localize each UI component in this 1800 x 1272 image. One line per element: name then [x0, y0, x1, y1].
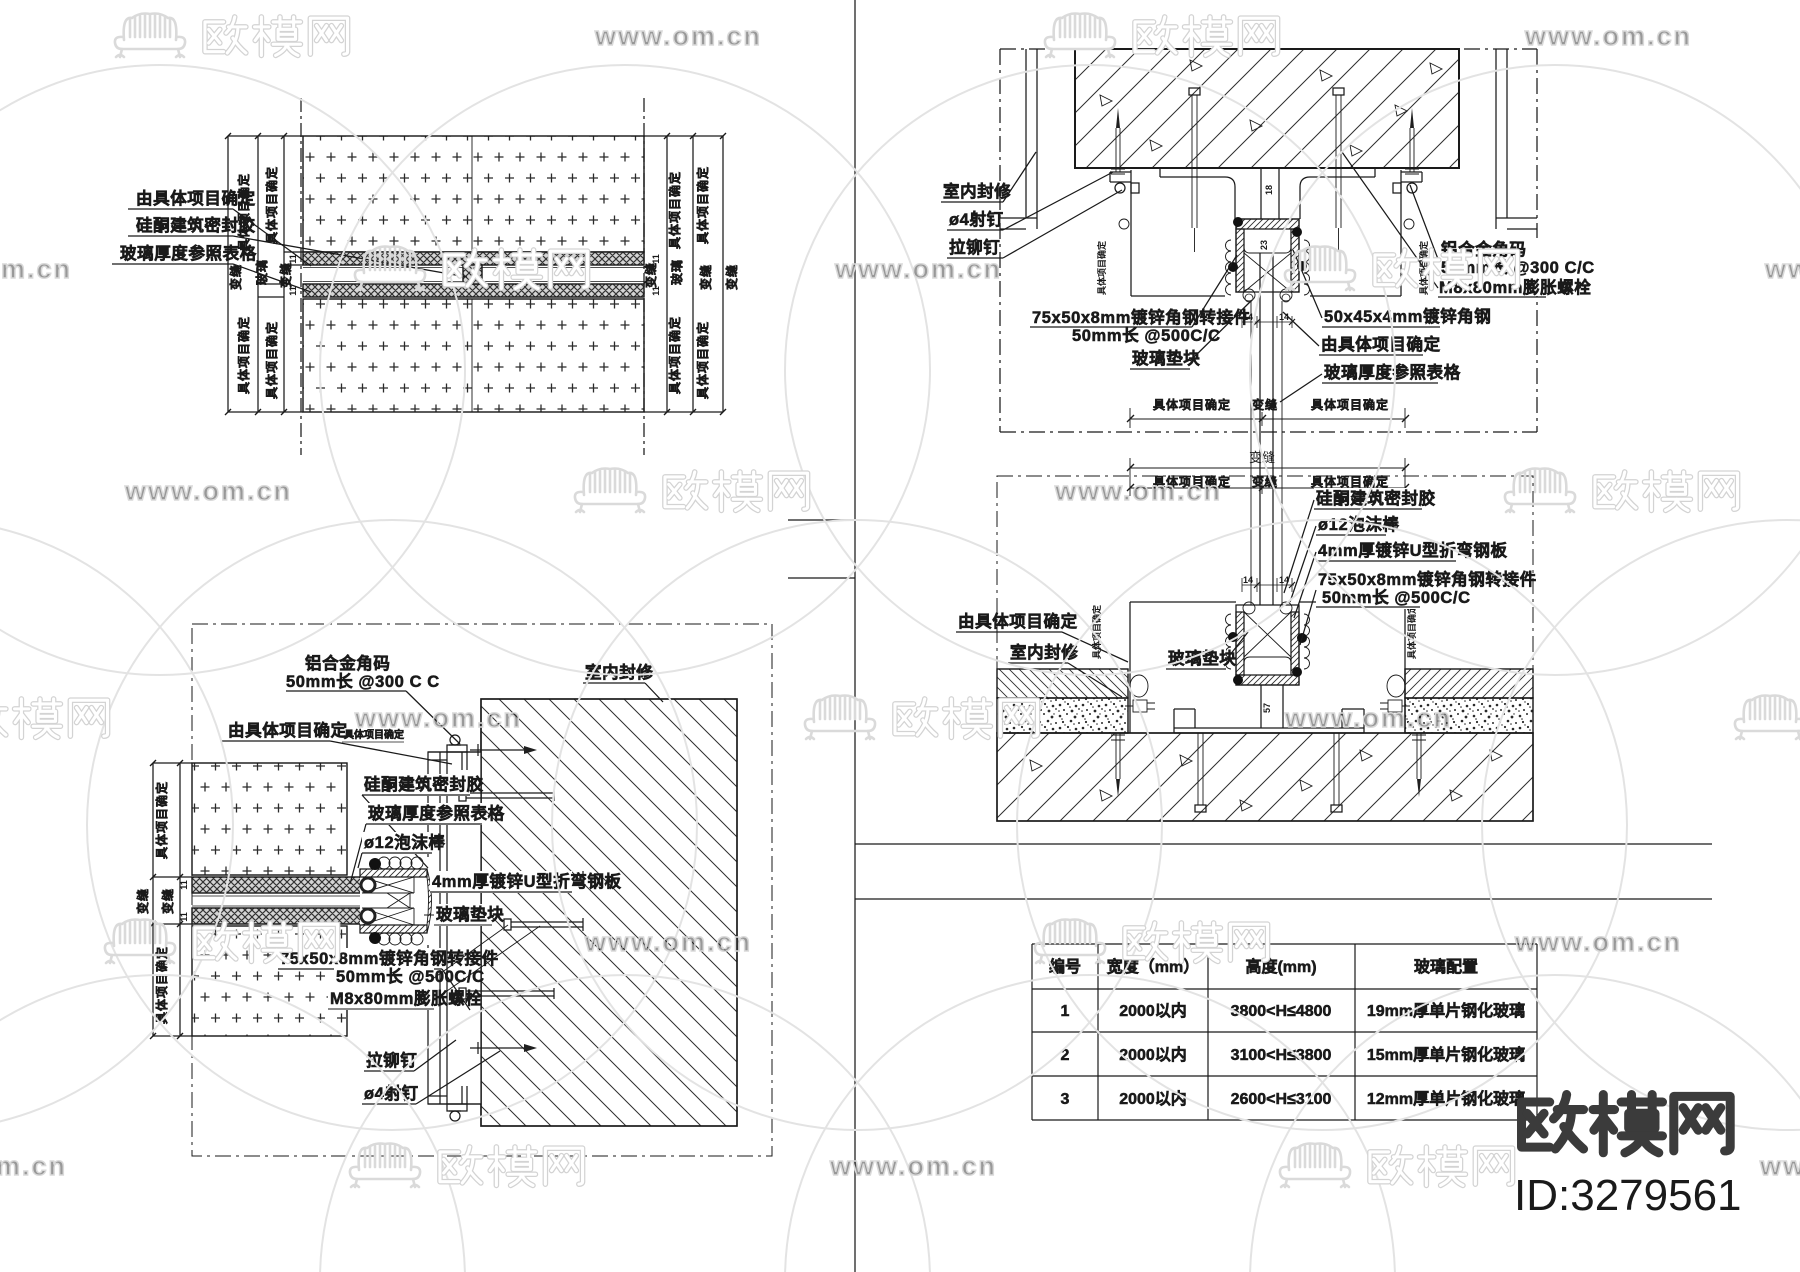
dimension columns right [644, 133, 726, 415]
svg-text:www.om.cn: www.om.cn [0, 254, 72, 284]
table header [1049, 957, 1478, 976]
setting block coils [1243, 602, 1255, 614]
top connection bracket [428, 735, 481, 770]
svg-text:www.om.cn: www.om.cn [1764, 254, 1800, 284]
cavity [1244, 229, 1291, 253]
hex bolt right [1380, 700, 1410, 712]
embed bolt right (down) [1331, 733, 1342, 812]
svg-text:编号: 编号 [1049, 957, 1081, 976]
expansion bolt left [1189, 88, 1200, 252]
sealant joint block [463, 265, 482, 284]
shot nail top [470, 744, 537, 756]
svg-text:2: 2 [1061, 1047, 1070, 1064]
svg-text:14: 14 [1243, 575, 1253, 585]
shoe right wall [1291, 229, 1299, 292]
label 室内封修 [583, 662, 663, 702]
svg-text:50mm长 @300 C C: 50mm长 @300 C C [286, 671, 440, 691]
label 玻璃厚度参照表格 [350, 803, 505, 884]
svg-text:具体项目确定: 具体项目确定 [695, 321, 710, 399]
rotated dim texts right [643, 166, 739, 399]
svg-text:www.om.cn: www.om.cn [1284, 703, 1452, 733]
glazing shoe lower [1226, 602, 1310, 685]
svg-text:具体项目确定: 具体项目确定 [695, 166, 710, 244]
label 拉铆钉 [364, 1040, 456, 1071]
svg-text:具体项目确定: 具体项目确定 [1406, 604, 1417, 660]
sealant bead right [1387, 675, 1405, 697]
svg-text:4mm厚镀锌U型折弯钢板: 4mm厚镀锌U型折弯钢板 [432, 871, 622, 891]
label 50x45x4mm镀锌角钢 [1293, 250, 1491, 328]
svg-text:拉铆钉: 拉铆钉 [366, 1050, 417, 1070]
svg-text:硅酮建筑密封胶: 硅酮建筑密封胶 [136, 215, 256, 235]
label 铝合金角码 [286, 653, 460, 744]
svg-text:www.om.cn: www.om.cn [594, 21, 762, 51]
svg-text:室内封修: 室内封修 [1010, 642, 1078, 662]
label 硅酮建筑密封胶 [362, 774, 484, 868]
dim line A [1127, 397, 1409, 428]
wing left [1130, 602, 1236, 733]
svg-text:12mm厚单片钢化玻璃: 12mm厚单片钢化玻璃 [1367, 1089, 1525, 1108]
svg-text:变缝: 变缝 [228, 264, 243, 290]
inner pane surface lines B [192, 896, 360, 906]
svg-text:11: 11 [179, 880, 189, 890]
svg-text:4mm厚镀锌U型折弯钢板: 4mm厚镀锌U型折弯钢板 [1318, 540, 1508, 560]
svg-text:www.om.cn: www.om.cn [1524, 21, 1692, 51]
svg-text:变缝: 变缝 [160, 888, 175, 914]
svg-text:www.om.cn: www.om.cn [0, 1151, 67, 1181]
svg-text:具体项目确定: 具体项目确定 [154, 781, 169, 859]
svg-text:11: 11 [651, 254, 661, 264]
stem size label [1262, 703, 1272, 713]
svg-text:宽度（mm）: 宽度（mm） [1107, 957, 1199, 976]
wing right [1299, 602, 1405, 733]
svg-text:具体项目确定: 具体项目确定 [1311, 474, 1389, 489]
svg-text:3100<H≤3800: 3100<H≤3800 [1231, 1047, 1332, 1064]
svg-text:具体项目确定: 具体项目确定 [1311, 397, 1389, 412]
glass pane outer [303, 252, 644, 265]
label 硅酮建筑密封胶 [128, 215, 467, 277]
foam rod coils bottom [378, 933, 423, 945]
dimension column far left [150, 760, 192, 1039]
floor left [997, 669, 1128, 733]
row 1 [1061, 1001, 1526, 1020]
shoe left wall [1236, 612, 1244, 675]
detail boundary top [1000, 48, 1537, 50]
channel top leg [360, 869, 427, 877]
foam rod coils top [378, 857, 423, 869]
label 75x50x8mm镀锌角钢转接件 50mm长 [1300, 569, 1537, 645]
svg-text:www.om.cn: www.om.cn [834, 254, 1002, 284]
svg-text:具体项目确定: 具体项目确定 [264, 321, 279, 399]
svg-text:具体项目确定: 具体项目确定 [154, 946, 169, 1024]
14 ticks upper [1242, 312, 1295, 328]
label 室内封修 [941, 152, 1036, 202]
glass mullion [1251, 301, 1282, 605]
svg-text:玻璃厚度参照表格: 玻璃厚度参照表格 [368, 803, 505, 823]
glass thickness ticks left [258, 252, 303, 297]
anchor bolt lower [459, 988, 554, 999]
glass pane inner [192, 908, 362, 924]
label 由具体项目确定 [956, 611, 1128, 662]
label 铝合金角码 @300 [1342, 152, 1595, 297]
anchor bolt mid upper [504, 871, 583, 884]
svg-text:玻璃: 玻璃 [669, 259, 684, 285]
svg-text:15mm厚单片钢化玻璃: 15mm厚单片钢化玻璃 [1367, 1045, 1525, 1064]
svg-text:11: 11 [288, 286, 298, 296]
svg-text:硅酮建筑密封胶: 硅酮建筑密封胶 [1316, 488, 1436, 508]
svg-text:18: 18 [1264, 185, 1274, 195]
room wall left [1000, 49, 1037, 229]
svg-text:11: 11 [179, 912, 189, 922]
insulation hatch lower [303, 299, 644, 412]
shoe bottom cap [1236, 675, 1299, 685]
svg-text:变缝: 变缝 [698, 264, 713, 290]
svg-text:铝合金角码: 铝合金角码 [305, 653, 391, 673]
glass pane inner [303, 284, 644, 297]
svg-text:75x50x8mm镀锌角钢转接件: 75x50x8mm镀锌角钢转接件 [1032, 307, 1251, 327]
svg-text:玻璃配置: 玻璃配置 [1414, 957, 1478, 976]
svg-text:11: 11 [651, 286, 661, 296]
glass pane outer [192, 877, 362, 893]
label 拉铆钉 [947, 190, 1122, 258]
sealant gaskets [369, 858, 381, 870]
insulation upper [192, 763, 347, 875]
svg-text:ø12泡沫棒: ø12泡沫棒 [364, 832, 446, 852]
svg-text:www.om.cn: www.om.cn [1759, 1151, 1800, 1181]
svg-text:变缝: 变缝 [724, 264, 739, 290]
label 4mm厚镀锌U型折弯钢板 [1294, 540, 1508, 618]
shot nail right (up) [1405, 108, 1419, 174]
label 室内封修 [1008, 642, 1122, 697]
svg-text:ID:3279561: ID:3279561 [1514, 1171, 1742, 1220]
svg-text:www.om.cn: www.om.cn [584, 927, 752, 957]
svg-text:ø12泡沫棒: ø12泡沫棒 [1318, 514, 1400, 534]
svg-text:50mm长 @500C/C: 50mm长 @500C/C [336, 966, 485, 986]
U-channel glazing shoe [360, 857, 436, 945]
interior pocket [428, 752, 481, 1104]
label 由具体项目确定 [1283, 312, 1441, 356]
setting block coils [1243, 289, 1255, 301]
gaskets [1233, 217, 1243, 227]
insulation lower [192, 926, 347, 1036]
label 由具体项目确定 [222, 720, 452, 764]
label 4mm厚镀锌U型折弯钢板 [430, 871, 622, 893]
svg-text:www.om.cn: www.om.cn [829, 1151, 997, 1181]
bottom connection bracket [428, 1086, 481, 1121]
svg-text:23: 23 [1259, 240, 1269, 250]
svg-text:2000以内: 2000以内 [1119, 1089, 1187, 1108]
gaskets [1233, 675, 1243, 685]
svg-text:具体项目确定: 具体项目确定 [1096, 240, 1107, 296]
embed bolt left (down) [1195, 733, 1206, 812]
rotated pocket texts [1091, 604, 1417, 660]
detail boundary [192, 624, 772, 1156]
panel joint centre line [471, 136, 473, 412]
svg-text:M8x80mm膨胀螺栓: M8x80mm膨胀螺栓 [330, 988, 482, 1008]
sealant bead left [1130, 675, 1148, 697]
label 玻璃垫块 [424, 904, 504, 926]
strip end gaskets [361, 878, 375, 892]
svg-text:具体项目确定: 具体项目确定 [236, 316, 251, 394]
svg-text:变缝: 变缝 [1252, 397, 1278, 412]
anchor bolt upper [459, 790, 554, 801]
rotated dim texts left [228, 166, 298, 399]
svg-text:高度(mm): 高度(mm) [1245, 957, 1316, 976]
svg-text:玻璃垫块: 玻璃垫块 [1132, 348, 1200, 368]
label 由具体项目确定 [128, 188, 311, 266]
svg-text:www.om.cn: www.om.cn [1054, 476, 1222, 506]
svg-text:变缝: 变缝 [643, 262, 658, 288]
centre dash-dot [1000, 431, 1537, 433]
label 50mm长 @500C/C [334, 925, 508, 988]
svg-text:1: 1 [1061, 1003, 1070, 1020]
svg-text:室内封修: 室内封修 [943, 181, 1011, 201]
row 2 [1061, 1045, 1526, 1064]
svg-text:19mm厚单片钢化玻璃: 19mm厚单片钢化玻璃 [1367, 1001, 1525, 1020]
svg-text:具体项目确定: 具体项目确定 [264, 166, 279, 244]
svg-text:2600<H≤3100: 2600<H≤3100 [1231, 1091, 1332, 1108]
shot nail right (down) [1412, 733, 1426, 797]
masonry wall hatch [481, 699, 737, 1126]
label 75x50x8mm镀锌角钢转接件 [278, 948, 499, 1010]
svg-text:由具体项目确定: 由具体项目确定 [958, 611, 1078, 631]
left ticks [788, 520, 855, 578]
svg-text:由具体项目确定: 由具体项目确定 [136, 188, 256, 208]
centre-line right [643, 98, 645, 455]
vertical divider [854, 0, 856, 1272]
label ø4射钉 [362, 1051, 500, 1104]
svg-text:玻璃厚度参照表格: 玻璃厚度参照表格 [120, 243, 257, 263]
svg-text:具体项目确定: 具体项目确定 [667, 316, 682, 394]
svg-text:玻璃厚度参照表格: 玻璃厚度参照表格 [1324, 362, 1461, 382]
upper pane end + X [362, 877, 427, 893]
svg-text:变缝: 变缝 [135, 888, 150, 914]
T-base [1174, 685, 1364, 733]
floor right [1405, 669, 1533, 733]
dimension columns left [225, 133, 303, 415]
glazing shoe upper [1226, 217, 1310, 302]
svg-text:3: 3 [1061, 1091, 1070, 1108]
anchor bolt mid lower [504, 918, 583, 931]
concrete base [997, 733, 1533, 821]
svg-text:ø4射钉: ø4射钉 [364, 1083, 419, 1103]
right horizontals [855, 844, 1712, 899]
svg-text:www.om.cn: www.om.cn [1514, 927, 1682, 957]
shoe left wall [1236, 229, 1244, 292]
14 ticks lower [1242, 575, 1295, 592]
label 玻璃垫块 lower [1166, 632, 1248, 670]
svg-text:硅酮建筑密封胶: 硅酮建筑密封胶 [364, 774, 484, 794]
svg-text:www.om.cn: www.om.cn [124, 476, 292, 506]
spacer block [387, 893, 410, 908]
big site logo 欧模网 [1522, 1095, 1731, 1153]
expansion bolt right [1333, 88, 1344, 252]
mullion stem [440, 752, 447, 1104]
svg-text:50x45x4mm镀锌角钢: 50x45x4mm镀锌角钢 [1324, 306, 1491, 326]
lower pane end + X [362, 908, 427, 925]
label 玻璃厚度参照表格 [112, 243, 311, 292]
svg-text:2000以内: 2000以内 [1119, 1001, 1187, 1020]
dim line B [1127, 458, 1409, 478]
dim line inner [1127, 474, 1409, 496]
label 硅酮建筑密封胶 [1284, 488, 1436, 593]
svg-text:具体项目确定: 具体项目确定 [667, 171, 682, 249]
glazing blocks X [1244, 253, 1291, 292]
svg-text:玻璃垫块: 玻璃垫块 [436, 904, 504, 924]
svg-text:具体项目确定: 具体项目确定 [1153, 397, 1231, 412]
right anchor bracket [1393, 172, 1422, 193]
shot nail left (up) [1111, 108, 1125, 174]
channel bottom leg [360, 925, 427, 933]
svg-text:57: 57 [1262, 703, 1272, 713]
detail boundary [997, 476, 1533, 821]
shot nail bottom [470, 1042, 537, 1054]
svg-text:由具体项目确定: 由具体项目确定 [228, 720, 348, 740]
label 玻璃厚度参照表格 [1280, 362, 1461, 402]
inner pane surface lines [303, 268, 644, 282]
room wall right [1496, 49, 1537, 229]
rotated pocket texts [1096, 185, 1429, 296]
label M8x80mm膨胀螺栓 [328, 926, 540, 1010]
svg-text:50mm长 @500C/C: 50mm长 @500C/C [1072, 325, 1221, 345]
label 玻璃垫块 upper [1130, 300, 1252, 370]
shoe top cap [1236, 219, 1299, 229]
label ø12泡沫棒 [1290, 514, 1400, 602]
svg-text:75x50x8mm镀锌角钢转接件: 75x50x8mm镀锌角钢转接件 [280, 948, 499, 968]
shoe right wall [1291, 612, 1299, 675]
hex bolt left [1125, 700, 1155, 712]
centre-line left [300, 98, 302, 455]
foam scallops [1226, 614, 1232, 669]
channel rounded cap [427, 869, 432, 933]
label 75x50x8mm转接件 [1030, 255, 1251, 346]
label ø12泡沫棒 [358, 832, 446, 868]
shot nail left (down) [1111, 733, 1125, 797]
row 3 [1061, 1089, 1526, 1108]
foam scallops [1226, 240, 1232, 295]
svg-text:由具体项目确定: 由具体项目确定 [1321, 334, 1441, 354]
svg-text:ø4射钉: ø4射钉 [949, 209, 1004, 229]
cavity [1244, 657, 1291, 675]
left anchor bracket [1110, 172, 1139, 193]
table grid [1032, 944, 1537, 1120]
concrete slab [1075, 49, 1459, 168]
svg-text:www.om.cn: www.om.cn [354, 703, 522, 733]
label ø4射钉 [947, 172, 1113, 230]
svg-text:室内封修: 室内封修 [585, 662, 653, 682]
svg-text:玻璃垫块: 玻璃垫块 [1168, 648, 1236, 668]
hanger profile [1119, 168, 1414, 296]
insulation hatch upper [303, 136, 644, 252]
glazing blocks X [1244, 612, 1291, 657]
